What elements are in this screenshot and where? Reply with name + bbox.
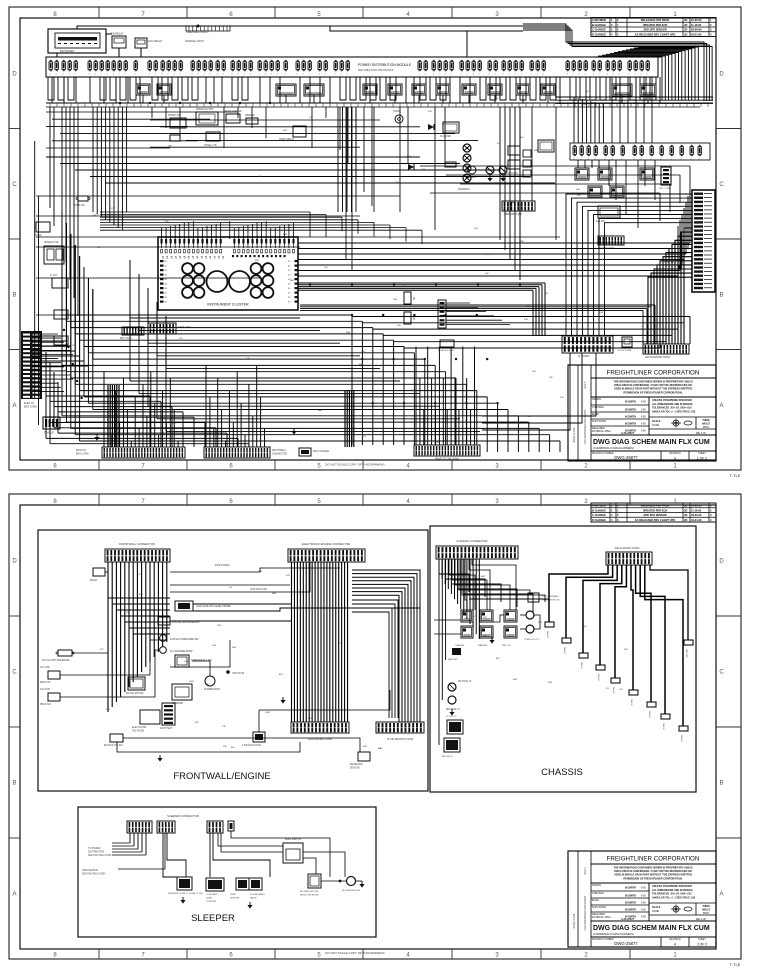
harness routing field main	[62, 212, 560, 452]
wire fan solenoid to engine bundle	[170, 620, 291, 622]
svg-text:GND: GND	[189, 681, 194, 683]
frontwall bundle peel-offs	[108, 575, 170, 634]
svg-text:SEE ROUTING CONN: SEE ROUTING CONN	[82, 874, 106, 876]
svg-text:CHASSIS CONNECTOR: CHASSIS CONNECTOR	[456, 539, 487, 543]
svg-text:A: A	[719, 892, 723, 898]
svg-text:BAT: BAT	[359, 363, 364, 366]
wire loop	[630, 77, 636, 100]
fuse F18	[173, 60, 176, 75]
svg-text:NAME PLATE: NAME PLATE	[573, 427, 576, 442]
svg-text:D: D	[719, 559, 724, 565]
svg-text:81K: 81K	[195, 722, 199, 724]
bundle above S1	[104, 372, 178, 447]
svg-text:ECM POWER: ECM POWER	[215, 565, 230, 567]
switch column S4	[523, 150, 531, 177]
svg-text:ENG CONN: ENG CONN	[24, 406, 37, 409]
verticals band mid drop	[338, 107, 356, 212]
svg-text:ADD SPD SENSOR: ADD SPD SENSOR	[643, 28, 666, 32]
svg-text:ELECTRONIC: ELECTRONIC	[132, 727, 147, 729]
wire engine sense 2	[170, 562, 310, 592]
frontwall-engine enclosure	[38, 530, 428, 791]
svg-text:74F: 74F	[372, 163, 376, 165]
svg-text:57C: 57C	[179, 338, 183, 340]
verticals center drops	[346, 107, 556, 270]
svg-text:LT RLY: LT RLY	[50, 275, 58, 277]
svg-text:PERMISSION OF FREIGHTLINER COR: PERMISSION OF FREIGHTLINER CORPORATION.	[624, 391, 683, 394]
wire loop	[48, 77, 54, 100]
harness routing field right extension	[352, 317, 690, 349]
fuse F68	[606, 60, 609, 75]
fuse F6	[88, 60, 91, 75]
svg-text:A: A	[719, 403, 723, 409]
svg-text:14G: 14G	[212, 645, 216, 647]
fuse F7	[94, 60, 97, 75]
svg-text:FRONTWALL/ENGINE: FRONTWALL/ENGINE	[173, 771, 270, 782]
fuse F87	[680, 145, 683, 160]
svg-text:REVISION: REVISION	[670, 453, 681, 455]
connector P2 air solenoid	[643, 344, 689, 359]
svg-text:57C: 57C	[100, 649, 104, 651]
svg-text:23A: 23A	[92, 214, 96, 217]
svg-text:JD: JD	[684, 504, 687, 508]
wire loop	[172, 77, 178, 100]
label grid heater	[82, 869, 106, 876]
svg-text:DRAWN: DRAWN	[592, 884, 601, 887]
svg-text:D CHANGE: D CHANGE	[592, 518, 606, 522]
svg-text:BAT: BAT	[583, 103, 588, 106]
svg-text:RELEASED FOR PROD: RELEASED FOR PROD	[641, 18, 670, 22]
wire loop	[68, 77, 74, 100]
fuse F80	[611, 145, 614, 160]
svg-text:74F: 74F	[549, 377, 553, 379]
wire loop	[640, 77, 646, 100]
relay K13	[612, 84, 632, 96]
turn signal lamp L1	[526, 611, 534, 619]
starter MTR	[172, 684, 192, 705]
engine harness bundle	[292, 562, 348, 722]
svg-text:JL CONN: JL CONN	[578, 354, 589, 358]
svg-text:SOLAR PANEL: SOLAR PANEL	[250, 893, 266, 896]
svg-text:GND: GND	[265, 712, 270, 714]
relay K22	[610, 186, 624, 197]
svg-text:ANGULAR TOL +/- 1 DEG FRAC 1/: ANGULAR TOL +/- 1 DEG FRAC 1/16	[652, 896, 696, 899]
svg-text:57C: 57C	[82, 384, 86, 386]
svg-text:TAIL LP: TAIL LP	[630, 699, 633, 707]
harness routing field secondary	[130, 260, 480, 431]
svg-text:BATTERY: BATTERY	[448, 658, 458, 661]
alternator G1	[204, 676, 220, 691]
connector J8 dbs	[659, 167, 671, 190]
fuse F89	[698, 145, 701, 160]
wire loop	[120, 77, 126, 100]
wire drops from PDM	[52, 77, 660, 103]
harness routing field bottom-left	[46, 352, 249, 447]
fuse F63	[572, 60, 575, 75]
fuse F25	[222, 60, 225, 75]
fuse F39	[324, 60, 327, 75]
sleeper pin SL4	[228, 821, 234, 831]
relay K21	[588, 186, 602, 197]
svg-text:SCALE: SCALE	[652, 420, 661, 423]
fuse F16	[161, 60, 164, 75]
svg-text:REL 4-96: REL 4-96	[696, 433, 706, 435]
svg-text:LOW A/C PRESSURE SW: LOW A/C PRESSURE SW	[170, 638, 199, 641]
svg-text:RELEASED FOR PROD: RELEASED FOR PROD	[641, 504, 670, 508]
fuse F45	[432, 60, 435, 75]
wire loop	[232, 77, 238, 100]
svg-text:4: 4	[674, 943, 676, 947]
wire top right feed	[467, 30, 523, 32]
svg-text:MAGN: MAGN	[90, 579, 97, 582]
license lamp module	[528, 593, 560, 602]
wire loop	[340, 77, 346, 100]
svg-text:TOLERANCES .XX=.03 .XXX=.010: TOLERANCES .XX=.03 .XXX=.010	[652, 893, 692, 896]
svg-text:A/C CLUTCH SOLENOID: A/C CLUTCH SOLENOID	[42, 659, 70, 662]
svg-text:D: D	[12, 559, 17, 565]
wire long resistance run	[193, 608, 420, 611]
svg-text:W.SMITH: W.SMITH	[625, 886, 636, 890]
module M3	[596, 206, 620, 223]
harness bus H1	[46, 103, 713, 107]
wires sleeper right	[218, 831, 345, 877]
wire left drops	[50, 107, 78, 316]
svg-text:B CHANGE: B CHANGE	[592, 23, 606, 27]
fuse F71	[628, 60, 631, 75]
fuse F69	[612, 60, 615, 75]
svg-text:ALL DIMENSIONS ARE IN INCHES: ALL DIMENSIONS ARE IN INCHES	[652, 889, 693, 892]
svg-text:ACC RELAY: ACC RELAY	[148, 39, 163, 43]
fuse F15	[154, 60, 157, 75]
svg-text:W.SMITH: W.SMITH	[625, 894, 636, 898]
svg-text:UPDATED PER ECN: UPDATED PER ECN	[643, 23, 668, 27]
svg-text:5: 5	[192, 256, 194, 260]
resistor R3 dimmer	[245, 114, 258, 124]
svg-text:TEMP: TEMP	[206, 898, 213, 900]
svg-text:C CHANGE: C CHANGE	[592, 513, 606, 517]
connector J1 bulkhead	[21, 331, 42, 409]
svg-text:SEE TABLE FOR FUSE RATINGS: SEE TABLE FOR FUSE RATINGS	[358, 69, 394, 72]
cap stud node	[226, 670, 244, 675]
svg-text:74F: 74F	[97, 247, 101, 249]
svg-text:6-95: 6-95	[641, 402, 646, 404]
svg-text:1939 DATA LINK: 1939 DATA LINK	[250, 588, 268, 591]
fuse F54	[494, 60, 497, 75]
horn H2	[393, 110, 403, 123]
sheet border frame	[9, 494, 741, 959]
svg-text:FLASHER: FLASHER	[440, 135, 451, 138]
fuse F35	[296, 60, 299, 75]
svg-text:57C: 57C	[486, 254, 490, 256]
wire loop	[100, 77, 106, 100]
svg-text:C: C	[12, 670, 17, 676]
fuse F84	[650, 145, 653, 160]
reserved sensor	[350, 752, 370, 770]
fuse F31	[264, 60, 267, 75]
svg-text:A REVISED: A REVISED	[592, 18, 606, 22]
svg-text:A: A	[12, 403, 16, 409]
ground G8	[180, 900, 185, 904]
svg-text:23A: 23A	[416, 84, 420, 87]
title block	[568, 851, 716, 947]
svg-text:AIR SOLENOID CONN: AIR SOLENOID CONN	[645, 356, 670, 359]
svg-text:23A: 23A	[393, 298, 397, 301]
svg-text:MAIN SWITCH: MAIN SWITCH	[285, 838, 301, 841]
wire loop	[380, 77, 386, 100]
switch S1 wiper	[168, 114, 186, 128]
fuse F27	[237, 60, 240, 75]
chassis relay row1 K26	[461, 610, 473, 622]
svg-text:JD: JD	[684, 518, 687, 522]
svg-text:HEADLAMP SW: HEADLAMP SW	[224, 110, 242, 113]
fuse F66	[592, 60, 595, 75]
svg-text:BAT: BAT	[283, 233, 288, 236]
svg-text:TO POWER: TO POWER	[88, 848, 101, 850]
sleeper dome light L5	[168, 877, 203, 895]
fuse F78	[594, 145, 597, 160]
svg-text:TAIL LP: TAIL LP	[648, 711, 651, 719]
sheet border frame	[9, 7, 741, 470]
chassis harness bundle	[439, 559, 479, 639]
wire loop	[430, 77, 436, 100]
module M4 main schema	[299, 448, 330, 456]
wire acc drop	[140, 48, 142, 57]
wire loop	[570, 77, 576, 100]
svg-text:B: B	[12, 781, 16, 787]
svg-text:A/C HIGH: A/C HIGH	[40, 688, 51, 691]
fuse F61	[542, 60, 545, 75]
svg-text:DRAWING NUMBER: DRAWING NUMBER	[592, 938, 614, 941]
svg-text:INSTRUMENT CLUSTER: INSTRUMENT CLUSTER	[207, 303, 249, 307]
fuse F52	[478, 60, 481, 75]
fuse F58	[520, 60, 523, 75]
cluster right horizontals	[298, 190, 690, 276]
svg-text:FUSE HOLDER: FUSE HOLDER	[438, 350, 454, 352]
chassis relay row1 K28	[504, 610, 517, 622]
svg-text:FRONTWALL CONNECTOR: FRONTWALL CONNECTOR	[119, 542, 155, 546]
fuse F65	[584, 60, 587, 75]
relay R1 ign	[110, 32, 126, 49]
relay K11	[516, 84, 530, 95]
wire loop	[360, 77, 366, 100]
fm trailer light L3	[448, 680, 472, 691]
electronic tbc module M7	[132, 710, 160, 733]
dark bundle into S1	[108, 385, 119, 447]
wire loop	[130, 77, 136, 100]
svg-text:ENGR: ENGR	[592, 899, 599, 902]
svg-text:NAME PLATE: NAME PLATE	[573, 913, 576, 928]
svg-text:REVISION: REVISION	[670, 939, 681, 941]
svg-text:REV 4: REV 4	[584, 867, 587, 875]
svg-text:RM TRAIL LT: RM TRAIL LT	[446, 708, 460, 711]
svg-text:IGN RELAY: IGN RELAY	[110, 32, 124, 36]
chassis left long drops	[439, 559, 446, 745]
fuse F21	[197, 60, 200, 75]
connector J6 column	[438, 300, 446, 328]
fuse F74	[646, 60, 649, 75]
fuse F64	[578, 60, 581, 75]
relay K4	[304, 84, 324, 96]
svg-text:W.SMITH: W.SMITH	[625, 908, 636, 912]
svg-text:FREIGHTLINER CORPORATION: FREIGHTLINER CORPORATION	[607, 856, 700, 863]
svg-text:CONTROL: CONTROL	[206, 901, 217, 903]
svg-text:JD: JD	[684, 513, 687, 517]
fuse F43	[418, 60, 421, 75]
wire loop	[242, 77, 248, 100]
svg-text:57C: 57C	[473, 616, 477, 618]
wire loop	[510, 77, 516, 100]
wire magn	[105, 571, 108, 573]
left connector feed lines	[32, 336, 88, 366]
svg-text:SENSOR: SENSOR	[350, 768, 360, 770]
engine fan solenoid Y1	[158, 617, 200, 625]
svg-text:5: 5	[162, 256, 164, 260]
svg-text:23A: 23A	[421, 168, 425, 171]
svg-text:6-95: 6-95	[641, 888, 646, 890]
fuse F32	[270, 60, 273, 75]
svg-text:D CHANGE: D CHANGE	[592, 32, 606, 36]
svg-text:62B: 62B	[363, 746, 367, 748]
svg-text:CHECKED: CHECKED	[592, 406, 604, 409]
svg-text:DO NOT SCALE COPY OF THIS DRA: DO NOT SCALE COPY OF THIS DRAWING	[325, 951, 385, 955]
ground G3	[157, 758, 162, 762]
fuse F57	[514, 60, 517, 75]
wire loop	[110, 77, 116, 100]
fuse F14	[148, 60, 151, 75]
svg-text:B: B	[719, 292, 723, 298]
svg-text:74F: 74F	[544, 293, 548, 295]
mid horizontals upper	[46, 157, 555, 183]
svg-text:AS RELEASED REV CHART UPD: AS RELEASED REV CHART UPD	[635, 518, 676, 522]
svg-text:PROJ: PROJ	[703, 912, 710, 915]
svg-text:5: 5	[209, 256, 211, 260]
svg-text:6-95: 6-95	[641, 410, 646, 412]
resistor R5	[404, 312, 416, 324]
wire loop	[58, 77, 64, 100]
wire bus right	[555, 96, 713, 98]
left component spare fuse holder	[44, 241, 64, 264]
svg-text:SHEET: SHEET	[698, 453, 706, 455]
fuse F86	[670, 145, 673, 160]
wire drops from fuse row 2	[578, 160, 655, 228]
svg-text:TAIL LP: TAIL LP	[580, 662, 583, 670]
svg-text:UPDATED PER ECN: UPDATED PER ECN	[643, 508, 668, 512]
svg-text:VALVE: VALVE	[250, 897, 257, 900]
svg-text:DATA LINK: DATA LINK	[178, 325, 191, 329]
svg-text:5: 5	[201, 256, 203, 260]
svg-text:5: 5	[214, 256, 216, 260]
svg-text:ECM ENGINE CONN: ECM ENGINE CONN	[308, 738, 332, 741]
svg-text:C: C	[12, 182, 17, 188]
rm trailer light L4	[446, 696, 460, 711]
svg-text:RR THX LT: RR THX LT	[442, 756, 454, 758]
svg-text:BLOWER MOTOR: BLOWER MOTOR	[342, 890, 361, 892]
svg-text:SENDERS: SENDERS	[458, 188, 470, 191]
svg-text:A-06-25877: A-06-25877	[621, 918, 635, 921]
wire loop	[530, 77, 536, 100]
wire loop	[550, 77, 556, 100]
bundle above S3	[416, 347, 475, 446]
svg-text:14G: 14G	[474, 228, 478, 230]
svg-text:TOLERANCES .XX=.03 .XXX=.010: TOLERANCES .XX=.03 .XXX=.010	[652, 407, 692, 410]
constant temp control	[206, 878, 224, 903]
svg-text:23A: 23A	[258, 570, 262, 573]
svg-text:GRID HEATER: GRID HEATER	[82, 869, 98, 872]
wire top feed	[77, 26, 198, 29]
svg-text:SLEEPER CONNECTOR: SLEEPER CONNECTOR	[167, 814, 199, 818]
bus above cluster	[100, 212, 422, 244]
wire battery to bus	[106, 33, 112, 35]
svg-text:TERMINATOR LTS: TERMINATOR LTS	[541, 599, 560, 602]
svg-text:CAD MAINTAINED DOCUMENT: CAD MAINTAINED DOCUMENT	[584, 895, 587, 930]
svg-text:90A: 90A	[407, 155, 411, 158]
wire loop	[490, 77, 496, 100]
switch S5	[505, 146, 520, 175]
fuse F12	[124, 60, 127, 75]
relay K9	[462, 84, 476, 95]
svg-text:CAP STUD: CAP STUD	[232, 672, 244, 675]
svg-text:TAIL LTS: TAIL LTS	[502, 644, 511, 647]
module M1	[196, 108, 218, 125]
ac high pressure switch S8	[40, 688, 60, 706]
relay K5	[363, 84, 377, 95]
svg-text:A REVISED: A REVISED	[592, 504, 606, 508]
svg-text:FLOW DOME: FLOW DOME	[618, 350, 632, 352]
svg-text:90A: 90A	[510, 201, 514, 204]
fuse F76	[580, 145, 583, 160]
svg-text:6-95: 6-95	[641, 903, 646, 905]
svg-text:TURN SIG LTS: TURN SIG LTS	[524, 639, 539, 641]
fuse F28	[243, 60, 246, 75]
fuse F26	[231, 60, 234, 75]
component spare	[34, 222, 50, 237]
svg-text:2 OF 2: 2 OF 2	[697, 943, 707, 947]
svg-text:12V: 12V	[137, 574, 141, 576]
wire ign drop	[118, 48, 120, 57]
wire loop	[580, 77, 586, 100]
sleeper bundle wires	[112, 833, 165, 869]
relay K12	[541, 84, 555, 95]
sleeper enclosure	[78, 807, 376, 937]
svg-text:DWG DIAG SCHEM MAIN FLX CUM: DWG DIAG SCHEM MAIN FLX CUM	[593, 439, 710, 446]
chassis relay row2 K30	[480, 626, 493, 638]
verticals bus to cluster feed	[93, 107, 127, 230]
wire loop	[440, 77, 446, 100]
svg-text:THE INFORMATION CONTAINED HERE: THE INFORMATION CONTAINED HEREIN IS PROP…	[613, 867, 693, 870]
connector S1 dash-eng	[76, 447, 185, 458]
svg-text:DISCLOSED IN CONFIDENCE. IT MA: DISCLOSED IN CONFIDENCE. IT MAY NOT BE R…	[614, 870, 692, 873]
svg-text:5: 5	[196, 256, 198, 260]
chassis routing wires	[434, 559, 545, 634]
ground G5	[449, 712, 454, 716]
wire loop	[182, 77, 188, 100]
connector P1 main cab	[692, 190, 715, 292]
svg-text:14G: 14G	[395, 182, 399, 184]
fuse F82	[633, 145, 636, 160]
svg-text:74F: 74F	[619, 689, 623, 691]
svg-text:57C: 57C	[442, 124, 446, 126]
fuse F22	[203, 60, 206, 75]
svg-text:5: 5	[179, 256, 181, 260]
svg-text:STOP SW: STOP SW	[74, 205, 85, 207]
junction dots sheet 1	[63, 102, 521, 405]
fuse holder FH1	[438, 340, 454, 352]
connector CH1 chassis	[436, 539, 518, 559]
svg-text:AS RELEASED REV CHART UPD: AS RELEASED REV CHART UPD	[635, 32, 676, 36]
svg-text:MATERIAL SPEC: MATERIAL SPEC	[592, 430, 611, 433]
svg-text:JD: JD	[684, 32, 687, 36]
svg-text:TAIL LP: TAIL LP	[612, 687, 615, 695]
svg-text:SPARE: SPARE	[34, 234, 42, 237]
